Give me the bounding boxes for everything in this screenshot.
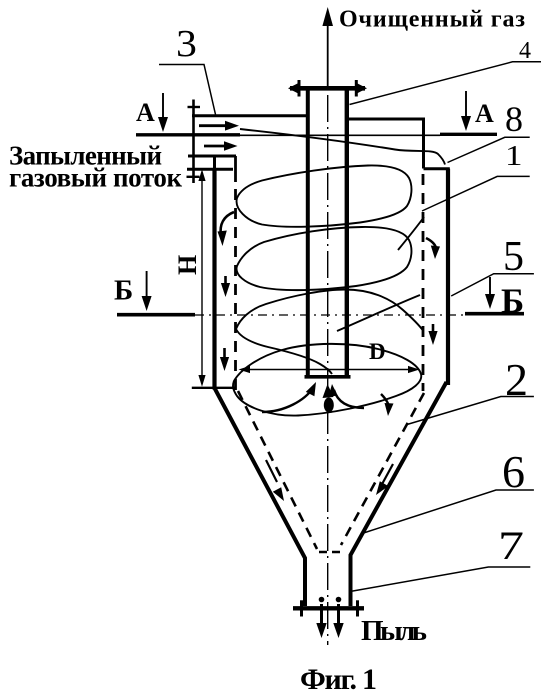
section mark A left [136,93,168,132]
svg-text:А: А [475,99,494,128]
cover ring left [187,168,233,171]
cone flow arrow left [266,460,284,501]
spiral loop 3 upper edge [236,290,423,331]
dust outlet dots [319,597,325,603]
spiral loop 4 (bottom) [233,344,421,416]
cover ring right [424,167,450,170]
cone dashed right [341,393,424,545]
inner shell left dashed [234,189,237,390]
inner shell right dashed [422,174,425,391]
svg-text:Очищенный газ: Очищенный газ [339,7,525,33]
svg-text:Б: Б [501,282,524,321]
svg-text:А: А [136,98,155,127]
spiral back stroke lower [337,295,420,331]
svg-text:8: 8 [505,99,523,139]
inlet duct wall connector [213,156,216,170]
svg-text:Н: Н [173,255,202,275]
svg-text:7: 7 [498,525,524,569]
svg-text:4: 4 [519,38,531,64]
svg-text:D: D [369,339,386,364]
svg-text:2: 2 [505,354,528,405]
svg-text:Фиг. 1: Фиг. 1 [300,663,377,696]
dust flow arrow left annulus 1 (hook) [218,212,235,246]
inlet duct top wall [192,114,306,117]
section mark A right [461,91,494,131]
spiral loop 1 [237,165,412,226]
bottom center up-arrow blob [323,384,334,413]
body right wall [446,169,450,385]
spiral back stroke upper [398,217,424,250]
cone flow arrow right [376,464,393,495]
section B-B trace line [117,314,524,315]
outlet pipe flange [288,80,367,97]
inlet flange line with ticks [187,100,201,184]
svg-text:1: 1 [505,140,522,171]
bottom recirculation up-arrow right [328,384,364,408]
spiral start stroke from inlet [240,129,445,165]
svg-text:Б: Б [114,275,133,307]
svg-text:3: 3 [176,22,197,65]
cone dashed cup [319,551,341,554]
cover right [349,118,425,121]
H dimension line [173,169,206,386]
outlet gas arrow (top) [322,7,333,87]
outlet pipe (vortex finder) walls [305,88,351,377]
dust outlet arrow right [333,604,343,638]
spiral loop 3 lower edge [236,329,332,374]
bottom down-right arrow [381,394,394,416]
svg-text:газовый поток: газовый поток [9,163,182,193]
cone dashed left [238,391,317,549]
cone right wall and dust pipe right [351,382,447,606]
dust outlet flange [293,600,364,616]
cover right step vertical [422,119,425,169]
inner shell left solid top [234,156,237,182]
dust flow arrow left annulus 3 [220,348,229,371]
dust flow arrow right annulus 2 [428,324,437,345]
spiral loop 2 [237,227,412,290]
section mark B right [485,277,524,321]
inlet duct bottom wall [188,155,236,158]
bottom recirculation up-arrow left [262,382,316,412]
body left wall [212,169,216,390]
inlet flow arrow 1 [199,121,239,131]
svg-text:Пыль: Пыль [361,615,427,647]
center axis dash-dot line [327,95,329,645]
dust flow arrow left annulus 2 [221,276,230,297]
cone left wall and dust pipe left [215,388,306,606]
dust flow arrow right annulus 1 (hook) [426,238,440,259]
inlet flow arrow 2 [204,141,238,151]
dust outlet arrow left [316,604,326,638]
D dimension line [239,339,420,373]
section mark B left [114,271,152,311]
cylinder bottom tick line [192,387,236,389]
section A-A trace line [136,134,497,135]
